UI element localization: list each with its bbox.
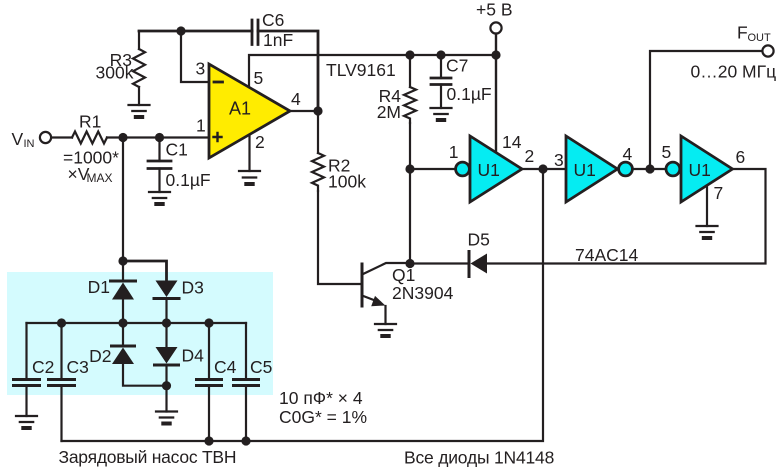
node R4 top [405, 50, 414, 59]
ground Q1 [375, 324, 396, 330]
svg-text:C2: C2 [32, 357, 54, 377]
svg-text:D1: D1 [88, 277, 110, 297]
wire VIN column down [122, 138, 124, 262]
svg-text:2N3904: 2N3904 [392, 283, 454, 303]
svg-text:C0G* = 1%: C0G* = 1% [279, 407, 367, 427]
svg-text:IN: IN [24, 138, 35, 150]
capacitor C5 [245, 323, 247, 379]
node R4/U1a input junction [405, 164, 414, 173]
svg-text:14: 14 [502, 132, 522, 152]
capacitor C4 [208, 323, 210, 379]
diode D5 [468, 252, 471, 277]
svg-text:+5 В: +5 В [476, 0, 513, 20]
wire pin2 to ground [248, 135, 250, 171]
capacitor C3 [60, 323, 62, 379]
svg-text:6: 6 [736, 147, 746, 167]
wire feedback bottom rail [62, 169, 544, 441]
minus sign pin3 [214, 81, 223, 84]
svg-text:0.1µF: 0.1µF [166, 170, 211, 190]
wire pin5 to +5V rail [249, 55, 496, 87]
resistor R1 [72, 132, 107, 144]
wire VIN to R1 [52, 136, 73, 138]
svg-text:D2: D2 [89, 346, 111, 366]
resistor R3 [138, 31, 140, 49]
svg-text:4: 4 [623, 144, 633, 164]
wire A1 output [290, 110, 318, 112]
wire FOUT [650, 51, 762, 169]
svg-text:C6: C6 [262, 10, 284, 30]
svg-text:OUT: OUT [748, 32, 772, 44]
svg-text:C5: C5 [250, 357, 272, 377]
node C5 bottom [241, 436, 250, 445]
svg-text:F: F [737, 23, 748, 43]
resistor R2 [317, 111, 319, 153]
node FOUT junction [645, 164, 654, 173]
capacitor C1 [158, 138, 160, 162]
svg-text:C7: C7 [446, 56, 468, 76]
diode D1 [122, 261, 124, 281]
wire U1a input [410, 168, 456, 170]
op-amp A1 [209, 64, 290, 158]
svg-text:1nF: 1nF [263, 30, 293, 50]
inverter U1c [666, 162, 680, 176]
capacitor C7 [440, 55, 442, 78]
diode D4 [165, 323, 167, 347]
diode D2 [122, 323, 124, 346]
wire R1 to op-amp pin 1 [107, 136, 209, 138]
ground C1 [149, 192, 170, 198]
node D2-D4 bottom [162, 381, 171, 390]
svg-text:1: 1 [196, 116, 206, 136]
node U1a output junction [538, 164, 547, 173]
svg-text:0.1µF: 0.1µF [447, 84, 492, 104]
capacitor C6 [252, 20, 258, 45]
diode D3 [156, 281, 178, 298]
svg-text:0…20 МГц: 0…20 МГц [691, 62, 777, 82]
ground R3 [129, 105, 150, 111]
wire U1c output loop [487, 169, 766, 264]
wire inverting input [181, 31, 209, 82]
svg-text:R1: R1 [79, 112, 101, 132]
plus sign pin1 [214, 133, 222, 141]
wire pin7 to ground [706, 186, 708, 227]
node collector junction [405, 259, 414, 268]
wire C6 top run [139, 31, 318, 111]
svg-text:D5: D5 [468, 230, 490, 250]
transistor Q1 [361, 264, 364, 306]
svg-text:D4: D4 [182, 346, 205, 366]
svg-text:U1: U1 [574, 160, 596, 180]
node C3 mid [57, 318, 66, 327]
node C1 junction [155, 133, 164, 142]
svg-text:7: 7 [714, 183, 724, 203]
svg-text:3: 3 [196, 59, 206, 79]
node C4 mid [204, 318, 213, 327]
svg-text:C4: C4 [214, 357, 237, 377]
svg-text:100k: 100k [328, 172, 366, 192]
svg-text:Зарядовый насос ТВН: Зарядовый насос ТВН [59, 447, 237, 467]
wire branch to D3 [123, 261, 167, 280]
svg-text:2M: 2M [377, 102, 401, 122]
svg-text:D3: D3 [182, 278, 204, 298]
wire U1a output [522, 168, 566, 170]
resistor R4 [409, 55, 411, 87]
svg-text:74AC14: 74AC14 [575, 245, 639, 265]
terminal VIN [40, 132, 51, 143]
wire +5V down to pin14 [495, 34, 497, 153]
wire U1b output [632, 168, 666, 170]
node VIN column junction [118, 133, 127, 142]
svg-text:3: 3 [554, 150, 564, 170]
node D1/D3 branch [118, 256, 127, 265]
terminal FOUT [762, 45, 773, 56]
svg-text:4: 4 [291, 89, 301, 109]
svg-text:2: 2 [255, 132, 265, 152]
wire R4 to collector [409, 169, 411, 264]
svg-text:U1: U1 [689, 160, 711, 180]
svg-text:10 пФ* × 4: 10 пФ* × 4 [279, 388, 363, 408]
node D3-D4 mid [162, 318, 171, 327]
node D1-D2 mid [118, 318, 127, 327]
svg-text:2: 2 [525, 146, 535, 166]
svg-text:TLV9161: TLV9161 [326, 60, 396, 80]
ground C7 [431, 108, 452, 114]
svg-text:5: 5 [254, 68, 264, 88]
svg-text:A1: A1 [229, 99, 251, 119]
ground D4 column [156, 412, 177, 418]
svg-text:5: 5 [662, 142, 672, 162]
node output junction [313, 106, 322, 115]
svg-text:Q1: Q1 [392, 265, 415, 285]
svg-text:Все диоды 1N4148: Все диоды 1N4148 [404, 448, 554, 468]
ground C2 [16, 416, 37, 422]
charge pump highlight box [7, 272, 273, 395]
svg-text:C3: C3 [67, 357, 89, 377]
inverter U1b [566, 136, 618, 202]
node C4 bottom [204, 436, 213, 445]
node C7 top [436, 50, 445, 59]
wire mid rail [27, 322, 247, 324]
ground pin7 [697, 226, 718, 232]
svg-text:MAX: MAX [87, 171, 113, 185]
svg-text:300k: 300k [96, 63, 134, 83]
svg-text:1: 1 [449, 142, 459, 162]
svg-text:V: V [12, 129, 24, 149]
node +5V rail [491, 50, 500, 59]
inverter U1a [456, 162, 470, 176]
terminal +5V [490, 22, 501, 33]
svg-text:C1: C1 [166, 140, 188, 160]
ground pin2 [239, 171, 260, 178]
capacitor C2 [25, 323, 27, 379]
svg-text:U1: U1 [478, 160, 500, 180]
node feedback junction [176, 26, 185, 35]
